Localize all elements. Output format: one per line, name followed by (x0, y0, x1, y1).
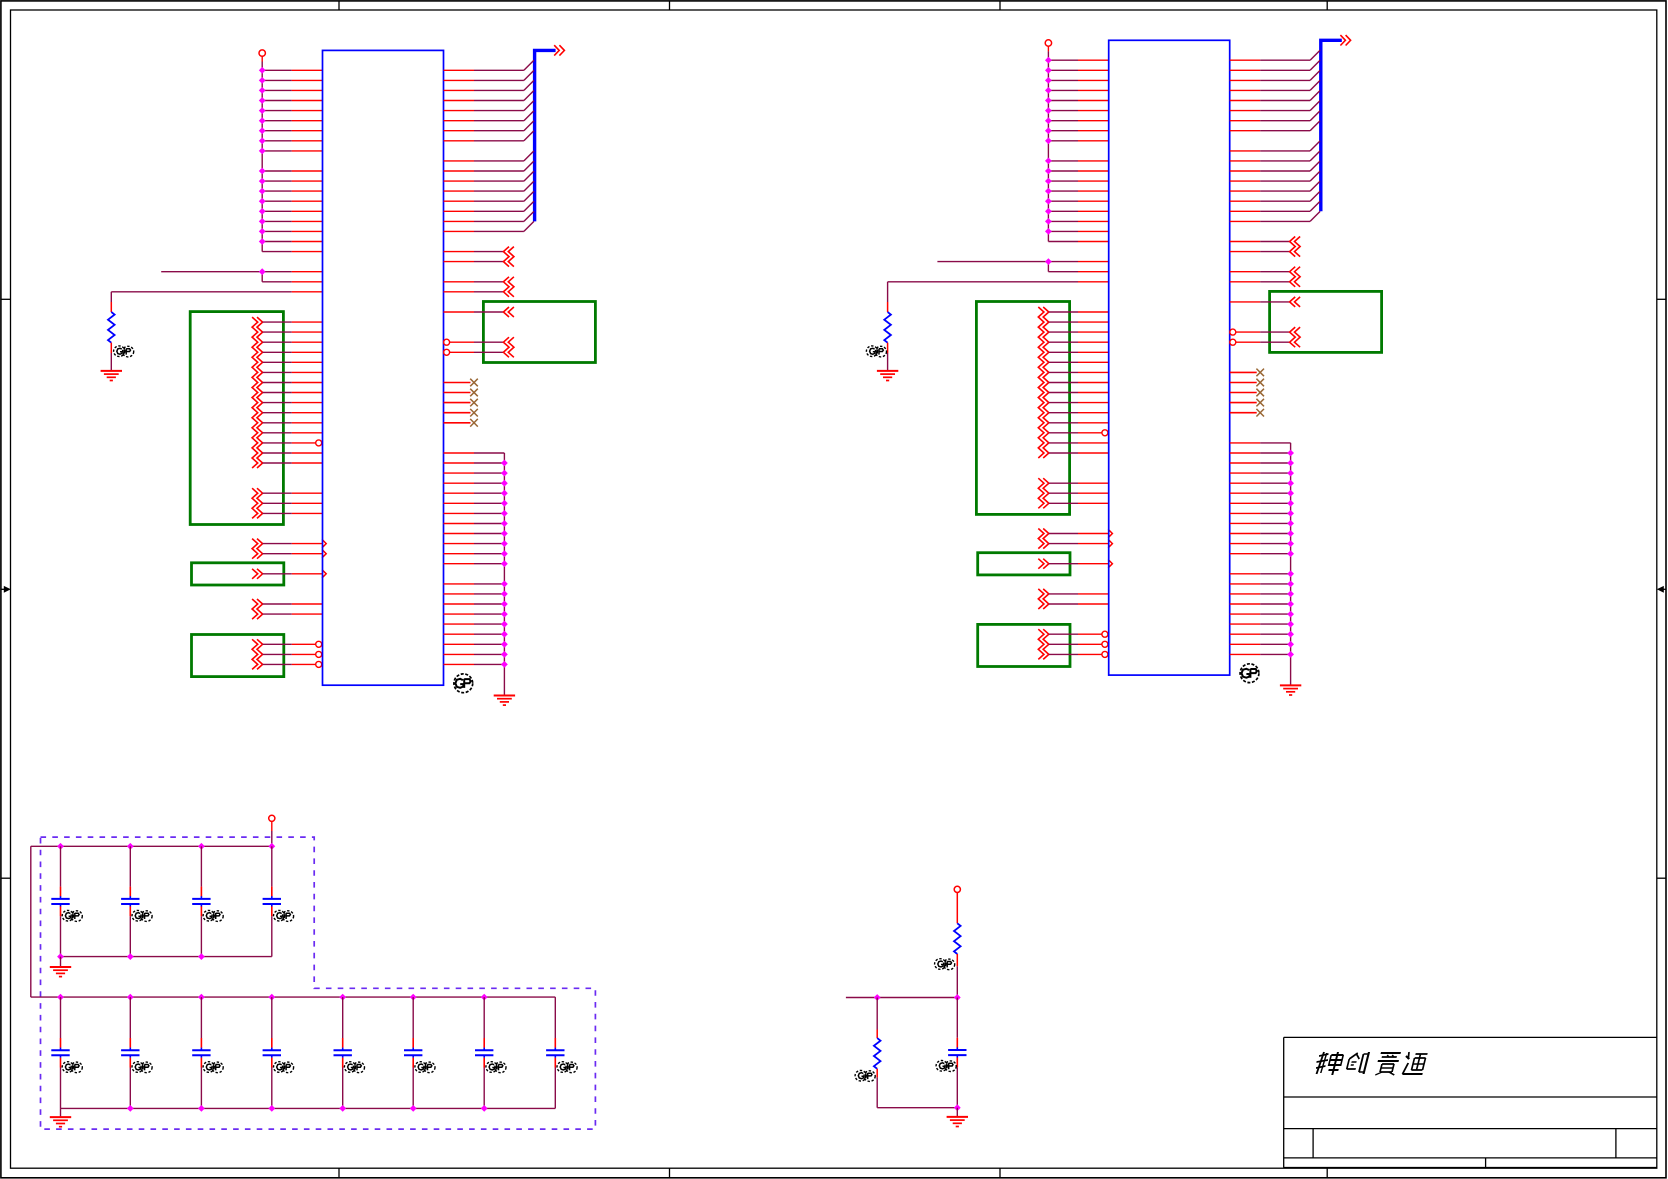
capacitor C12 (546, 997, 564, 1108)
wire (444, 533, 505, 535)
series resistors (chevron chain) (503, 247, 514, 267)
junction (1046, 68, 1051, 73)
bus (thick) with off-page arrow (1321, 35, 1351, 211)
wire (1049, 361, 1109, 363)
wire (1230, 543, 1291, 545)
wire (444, 623, 505, 625)
wire (263, 321, 323, 323)
wire (444, 523, 505, 525)
wire to bus (1230, 91, 1320, 101)
border centre arrow right (1657, 586, 1666, 593)
no-connect X pin (444, 399, 478, 407)
wire (1048, 140, 1108, 142)
series resistors (chevron chain) (252, 539, 263, 559)
wire (444, 311, 504, 313)
capacitor C-term (948, 998, 966, 1108)
wire (1049, 452, 1109, 454)
no-connect X pin (444, 379, 478, 387)
wire with input arrow (1049, 539, 1113, 547)
wire (1230, 613, 1291, 615)
series resistors (chevron chain) (1290, 327, 1301, 347)
wire to bus (1230, 181, 1320, 191)
capacitor C2 (121, 846, 139, 956)
wire (1048, 100, 1108, 102)
wire to inverted pin (1049, 631, 1108, 637)
wire (1049, 371, 1109, 373)
wire to bus (444, 161, 534, 171)
ground (877, 371, 898, 381)
wire (1230, 593, 1291, 595)
wire (161, 272, 322, 282)
wire (1048, 69, 1108, 71)
label GP J1 (454, 674, 473, 693)
wire (1230, 492, 1291, 494)
junction (1288, 501, 1293, 506)
wire to inverted pin (1049, 651, 1108, 657)
junction (1288, 481, 1293, 486)
junction (502, 591, 507, 596)
border zone tick bottom (999, 1168, 1001, 1178)
junction (1046, 168, 1051, 173)
wire (263, 603, 323, 605)
junction (260, 239, 265, 244)
wire (1049, 502, 1109, 504)
ground (494, 696, 515, 706)
wire (1049, 442, 1109, 444)
series resistors (chevron chain) (1290, 237, 1301, 257)
wire (1048, 79, 1108, 81)
junction (1046, 209, 1051, 214)
wire (263, 412, 323, 414)
junction (1288, 450, 1293, 455)
junction (269, 844, 274, 849)
wire to bus (444, 211, 534, 221)
junction (1288, 460, 1293, 465)
wire node rail (846, 997, 957, 999)
wire (1230, 553, 1291, 555)
wire (444, 543, 505, 545)
capacitor C8 (263, 997, 281, 1108)
junction (1288, 470, 1293, 475)
capacitor C6 (121, 997, 139, 1108)
label G/P (936, 1061, 956, 1072)
wire (1049, 412, 1109, 414)
wire (1048, 271, 1108, 273)
wire (1048, 110, 1108, 112)
junction (502, 621, 507, 627)
wire (1048, 190, 1108, 192)
wire (60, 1108, 62, 1117)
series resistors (chevron chain) (1038, 589, 1049, 609)
wire to bus (444, 171, 534, 181)
junction (502, 551, 507, 556)
wire to bus (1230, 191, 1320, 201)
junction (1288, 521, 1293, 526)
wire (263, 331, 323, 333)
series resistors (chevron chain) (1290, 267, 1301, 287)
wire with input arrow (263, 550, 327, 558)
wire (263, 462, 323, 464)
wire (263, 392, 323, 394)
wire (1049, 593, 1109, 595)
junction (502, 581, 507, 586)
wire with input arrow (1049, 529, 1113, 537)
wire (263, 502, 323, 504)
label G/P (866, 346, 886, 357)
no-connect X pin (1230, 389, 1264, 397)
bus (thick) with off-page arrow (535, 45, 565, 221)
wire (263, 452, 323, 454)
wire (1230, 241, 1290, 243)
wire (1230, 271, 1290, 273)
wire (444, 512, 505, 514)
junction (1288, 511, 1293, 516)
wire (1048, 210, 1108, 212)
ground (101, 371, 122, 381)
wire bottom rail (61, 956, 272, 958)
wire to bus (444, 201, 534, 211)
wire (1048, 180, 1108, 182)
junction (128, 954, 133, 959)
no-connect X pin (1230, 409, 1264, 417)
wire (1049, 331, 1109, 333)
wire (444, 281, 504, 283)
wire (1048, 59, 1108, 61)
wire to bus (444, 70, 534, 80)
junction (260, 199, 265, 204)
junction (260, 219, 265, 224)
series resistors (chevron chain) (252, 639, 263, 669)
wire (262, 120, 322, 122)
junction (502, 470, 507, 475)
wire (937, 262, 1108, 272)
wire vertical ground bus (1290, 443, 1292, 686)
wire to bus (1230, 50, 1320, 60)
wire to bus (1230, 211, 1320, 221)
resistor pack RP-C J2 (978, 624, 1070, 666)
junction (58, 844, 63, 849)
wire (262, 220, 322, 222)
junction (128, 994, 133, 999)
junction (502, 561, 507, 566)
wire (1048, 230, 1108, 232)
junction (1046, 178, 1051, 183)
junction (1046, 98, 1051, 103)
border zone tick right (1657, 877, 1666, 879)
junction (260, 108, 265, 113)
wire (1049, 351, 1109, 353)
no-connect circle top of pull-up bus J1 (259, 50, 265, 56)
connector J1 (323, 50, 444, 685)
resistor pack RP-A J2 (976, 302, 1069, 515)
junction (260, 168, 265, 173)
no-connect X pin (444, 389, 478, 397)
junction (1288, 581, 1293, 586)
wire (1049, 430, 1108, 436)
wire to bus (1230, 121, 1320, 131)
wire to bus (444, 111, 534, 121)
wire (444, 452, 505, 454)
junction (1288, 621, 1293, 627)
junction (1046, 259, 1051, 264)
wire to bus (1230, 101, 1320, 111)
wire (444, 482, 505, 484)
wire (262, 130, 322, 132)
series resistors (chevron chain) RP-A (1038, 307, 1049, 458)
wire (60, 957, 62, 967)
wire to bus (1230, 80, 1320, 90)
wire (1048, 120, 1108, 122)
no-connect X pin (1230, 399, 1264, 407)
wire (1049, 492, 1109, 494)
wire (262, 69, 322, 71)
title block frame (1284, 1037, 1657, 1167)
wire (263, 382, 323, 384)
wire to bus (444, 191, 534, 201)
junction (260, 88, 265, 93)
wire (956, 954, 958, 998)
wire (262, 79, 322, 81)
junction (1046, 108, 1051, 113)
wire (444, 291, 504, 293)
series resistors (chevron chain) RP-A (252, 317, 263, 468)
wire (1230, 452, 1291, 454)
wire (262, 281, 322, 283)
wire (887, 343, 889, 371)
wire (263, 432, 323, 434)
wire (1049, 392, 1109, 394)
junction (1046, 219, 1051, 224)
junction (1288, 611, 1293, 616)
wire (1230, 442, 1291, 444)
junction (1288, 571, 1293, 576)
wire (1048, 160, 1108, 162)
junction (199, 844, 204, 849)
wire vertical ground bus (503, 453, 505, 696)
series resistor (chevron) (1038, 559, 1049, 569)
ground (1280, 685, 1301, 695)
junction (260, 78, 265, 83)
junction (502, 611, 507, 616)
wire (444, 653, 505, 655)
wire (956, 1108, 958, 1117)
wire to bus (444, 80, 534, 90)
junction (955, 995, 960, 1000)
resistor pack RP-A J1 (190, 312, 283, 525)
junction (1046, 88, 1051, 93)
wire (444, 643, 505, 645)
wire to bus (444, 60, 534, 70)
junction (411, 1106, 416, 1111)
series resistors (chevron chain) (503, 337, 514, 357)
wire (263, 512, 323, 514)
junction (1046, 138, 1051, 143)
wire (111, 292, 322, 312)
wire (1230, 522, 1291, 524)
wire (1230, 502, 1291, 504)
junction (1046, 118, 1051, 123)
wire (1230, 633, 1291, 635)
wire from inverted pin (444, 339, 504, 345)
wire (876, 998, 878, 1039)
junction (502, 632, 507, 637)
capacitor C10 (404, 997, 422, 1108)
wire top rail (31, 845, 272, 847)
junction (502, 642, 507, 647)
ground (947, 1117, 968, 1127)
wire left drop (30, 846, 32, 997)
wire with input arrow (263, 539, 327, 547)
wire to inverted pin (263, 641, 322, 647)
border zone tick left (1, 877, 11, 879)
junction (1288, 652, 1293, 657)
wire to inverted pin (263, 651, 322, 657)
junction (411, 994, 416, 999)
wire to inverted pin (1049, 641, 1108, 647)
no-connect X pin (444, 409, 478, 417)
wire (263, 402, 323, 404)
wire to bus (444, 151, 534, 161)
series resistors (chevron chain) (1038, 529, 1049, 549)
wire (1049, 382, 1109, 384)
wire (444, 593, 505, 595)
ground (50, 967, 71, 977)
wire (1230, 573, 1291, 575)
wire from inverted pin (1230, 339, 1290, 345)
border centre arrow left (1, 586, 11, 593)
no-connect circle top of pull-up bus J2 (1045, 40, 1051, 46)
wire top rail 2 (31, 996, 556, 998)
wire (262, 241, 322, 243)
junction (1046, 229, 1051, 234)
junction (502, 491, 507, 496)
wire vertical bus left of J1 (261, 56, 263, 251)
wire (1230, 583, 1291, 585)
junction (340, 1106, 345, 1111)
junction (269, 1106, 274, 1111)
junction (260, 178, 265, 183)
wire (262, 110, 322, 112)
junction (260, 148, 265, 153)
border zone tick bottom (1326, 1168, 1328, 1178)
wire (263, 440, 322, 446)
border zone tick bottom (338, 1168, 340, 1178)
wire to bus (1230, 151, 1320, 161)
no-connect X pin (444, 419, 478, 427)
wire (262, 200, 322, 202)
wire (888, 282, 1109, 312)
resistor pack RP-C J1 (192, 635, 284, 677)
border zone tick top (669, 1, 671, 10)
connector J2 (1109, 40, 1230, 675)
junction (340, 994, 345, 999)
wire (262, 180, 322, 182)
wire (444, 603, 505, 605)
series resistors (chevron chain) (1038, 478, 1049, 508)
series resistor (chevron) (1290, 297, 1301, 307)
junction (1288, 601, 1293, 606)
capacitor C5 (51, 997, 69, 1108)
junction (199, 994, 204, 999)
wire to bus (444, 101, 534, 111)
capacitor C1 (51, 846, 69, 956)
junction (1046, 158, 1051, 163)
wire (1048, 241, 1108, 243)
wire (876, 1069, 878, 1108)
junction (1046, 58, 1051, 63)
series resistor (chevron) (503, 307, 514, 317)
junction (875, 995, 880, 1000)
border zone tick right (1657, 298, 1666, 300)
wire to bus (1230, 60, 1320, 70)
series resistors (chevron chain) (252, 488, 263, 518)
wire to bus (444, 131, 534, 141)
wire (1048, 220, 1108, 222)
ground (50, 1117, 71, 1127)
wire (1230, 482, 1291, 484)
junction (260, 118, 265, 123)
junction (502, 481, 507, 486)
wire from inverted pin (1230, 329, 1290, 335)
junction (260, 68, 265, 73)
wire (262, 150, 322, 152)
series resistors (chevron chain) (503, 277, 514, 297)
wire to bus (1230, 171, 1320, 181)
wire bottom (877, 1107, 957, 1109)
junction (58, 994, 63, 999)
series resistor (chevron) (252, 569, 263, 579)
junction (260, 128, 265, 133)
wire (1049, 311, 1109, 313)
junction (502, 511, 507, 516)
wire (1049, 422, 1109, 424)
wire (444, 663, 505, 665)
capacitor C9 (334, 997, 352, 1108)
capacitor C3 (192, 846, 210, 956)
junction (502, 460, 507, 465)
junction (1288, 632, 1293, 637)
wire (262, 190, 322, 192)
wire (444, 502, 505, 504)
wire (1049, 482, 1109, 484)
junction (260, 98, 265, 103)
wire (444, 563, 505, 565)
wire (1048, 170, 1108, 172)
junction (1288, 642, 1293, 647)
junction (260, 209, 265, 214)
resistor R-term1 (954, 923, 961, 954)
wire to bus (1230, 141, 1320, 151)
junction (1046, 199, 1051, 204)
border zone tick top (1326, 1, 1328, 10)
junction (1288, 531, 1293, 536)
wire (1230, 643, 1291, 645)
junction (502, 501, 507, 506)
resistor R-pullup J1 (108, 312, 115, 343)
series resistors (chevron chain) (1038, 629, 1049, 659)
wire to bus (444, 121, 534, 131)
wire (1230, 281, 1290, 283)
wire (444, 462, 505, 464)
wire (444, 492, 505, 494)
wire (262, 210, 322, 212)
wire (263, 371, 323, 373)
wire (444, 583, 505, 585)
wire (262, 170, 322, 172)
wire to bus (1230, 201, 1320, 211)
junction (128, 1106, 133, 1111)
wire (1230, 472, 1291, 474)
